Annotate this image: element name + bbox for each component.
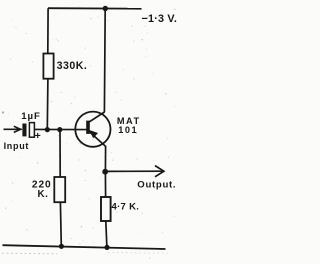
node: R2 ground junction [59, 244, 64, 249]
wire: capacitor to transistor base [34, 128, 86, 130]
wire: R3 to ground rail [106, 221, 107, 248]
wire: collector to top rail [103, 9, 106, 113]
capacitor C1 positive plate (hollow) [29, 123, 34, 138]
wire: R1 to base node [46, 79, 49, 130]
transistor Q1 emitter stroke (to bottom) [89, 132, 105, 147]
svg-text:K.: K. [38, 189, 49, 200]
wire: R2 to ground rail [59, 202, 62, 246]
capacitor C1 negative plate (solid) [22, 124, 26, 137]
svg-text:330K.: 330K. [57, 60, 88, 72]
wire: input lead [4, 128, 22, 130]
svg-text:−1·3 V.: −1·3 V. [142, 13, 178, 25]
svg-text:1µF: 1µF [21, 111, 41, 122]
wire: base node to R2 [59, 130, 61, 178]
scan speckle texture [2, 6, 176, 259]
input arrowhead [14, 126, 21, 132]
node: R3 ground junction [104, 245, 109, 250]
svg-text:4·7 K.: 4·7 K. [112, 202, 140, 213]
wire: top supply rail [48, 7, 142, 10]
svg-text:Output.: Output. [137, 180, 176, 191]
svg-text:Input: Input [4, 141, 30, 151]
svg-text:+: + [35, 130, 41, 142]
wire: top rail to R1 [47, 8, 49, 54]
svg-text:101: 101 [118, 125, 138, 135]
transistor Q1 emitter arrowhead (PNP, points to base) [89, 130, 98, 138]
transistor Q1 collector stroke (to top) [89, 112, 105, 122]
wire: emitter to output node [104, 146, 106, 172]
transistor Q1 MAT 101 circle [75, 112, 110, 147]
node B: R2 junction on base wire [57, 127, 62, 132]
node: junction of emitter wire and top rail [103, 6, 108, 11]
resistor R1 330K body [43, 54, 53, 79]
wire: output node to R3 [104, 172, 106, 198]
wire: output lead [105, 170, 163, 172]
resistor R2 220K body [54, 177, 65, 202]
output arrowhead [155, 166, 164, 177]
node A: R1 junction on base wire [45, 127, 50, 132]
node: output junction [102, 169, 108, 175]
resistor R3 4.7K body [101, 197, 111, 221]
transistor Q1 base bar [86, 121, 90, 134]
wire: bottom ground rail [3, 245, 166, 249]
